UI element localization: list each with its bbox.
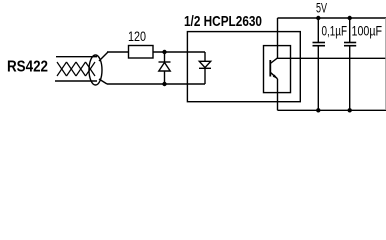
wire resistor to LED anode xyxy=(153,51,205,53)
svg-text:0,1µF: 0,1µF xyxy=(322,23,348,39)
svg-text:1/2 HCPL2630: 1/2 HCPL2630 xyxy=(184,14,262,30)
svg-text:RS422: RS422 xyxy=(7,59,48,76)
detector box xyxy=(264,46,291,93)
phototransistor Q1 xyxy=(270,58,277,79)
5V supply rail xyxy=(278,17,386,19)
junction C1 bottom xyxy=(316,108,320,112)
wire collector to 5V rail xyxy=(277,18,279,58)
junction C2 bottom xyxy=(348,108,352,112)
cable end ellipse xyxy=(89,55,102,85)
junction D1 top xyxy=(162,50,166,54)
junction C1 top xyxy=(316,16,320,20)
wire emitter to ground rail xyxy=(277,79,279,111)
svg-text:5V: 5V xyxy=(316,0,327,16)
wire cable to resistor xyxy=(107,51,129,53)
wire upper fan-out xyxy=(99,52,108,61)
diode D1 protection xyxy=(159,52,171,84)
wire lower fan-out xyxy=(99,79,107,84)
svg-text:100µF: 100µF xyxy=(352,23,383,39)
junction D1 bottom xyxy=(162,82,166,86)
cut-off wire at right edge xyxy=(384,18,386,110)
capacitor C1 0,1uF xyxy=(313,18,326,110)
LED of optocoupler xyxy=(199,52,211,84)
IC box U1 HCPL2630 xyxy=(187,32,300,102)
capacitor C2 100uF xyxy=(344,18,356,110)
twisted-pair bottom conductor xyxy=(55,80,97,82)
wire cable to LED cathode (bottom) xyxy=(107,83,205,85)
twisted-pair twist symbol xyxy=(57,62,95,76)
junction C2 top xyxy=(348,16,352,20)
resistor R 120 xyxy=(129,46,154,59)
output wire xyxy=(278,57,386,59)
svg-text:120: 120 xyxy=(128,28,146,44)
ground rail xyxy=(278,109,386,111)
twisted-pair top conductor xyxy=(56,56,97,58)
